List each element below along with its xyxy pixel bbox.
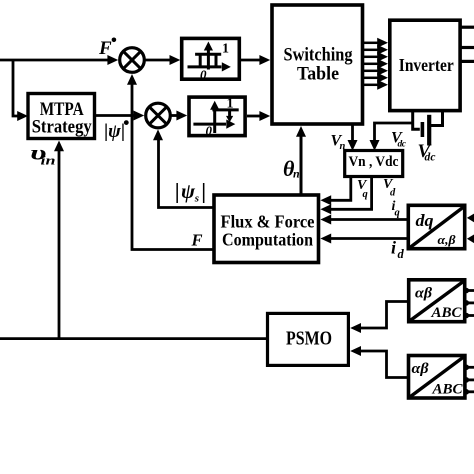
svg-text:s: s <box>194 193 199 205</box>
svg-text:F: F <box>191 231 203 250</box>
svg-text:|: | <box>175 179 180 204</box>
summing junction circle 1 <box>120 48 145 73</box>
wire psi_s feedback to circle2 <box>159 138 215 208</box>
svg-text:ABC: ABC <box>430 305 461 321</box>
dq right input stubs <box>467 214 474 223</box>
svg-text:0: 0 <box>200 67 207 82</box>
svg-text:dc: dc <box>425 152 436 164</box>
wires switching table to inverter (7 parallel arrows) <box>364 43 379 85</box>
svg-text:Switching: Switching <box>284 45 353 66</box>
wire v_in branch up to MTPA <box>58 149 61 339</box>
svg-text:q: q <box>395 208 400 219</box>
svg-text:αβ: αβ <box>415 286 432 302</box>
svg-text:Strategy: Strategy <box>32 117 92 138</box>
summing junction circle 2 <box>146 103 171 128</box>
wire abc1 to PSMO <box>359 302 409 329</box>
svg-text:PSMO: PSMO <box>286 328 332 350</box>
svg-text:i: i <box>391 238 396 258</box>
svg-text:F: F <box>98 38 112 59</box>
svg-text:1: 1 <box>222 42 229 57</box>
wire hysteresis2 to switching table <box>247 115 262 118</box>
svg-text:d: d <box>398 247 405 261</box>
svg-text:Computation: Computation <box>222 230 313 250</box>
wire abc2 to PSMO <box>359 351 409 378</box>
Inverter block <box>390 20 460 110</box>
svg-text:Flux & Force: Flux & Force <box>221 212 315 232</box>
wire id from dq block <box>329 237 407 240</box>
svg-text:in: in <box>41 153 56 168</box>
svg-text:|: | <box>201 179 206 204</box>
wire Vn from switching table <box>351 126 354 144</box>
wire PSMO output feedback rail <box>0 337 268 340</box>
svg-text:α,β: α,β <box>438 232 456 247</box>
hysteresis comparator F block <box>182 38 240 79</box>
Flux & Force Computation block <box>214 195 319 263</box>
svg-text:q: q <box>363 189 368 200</box>
Vn , Vdc block <box>345 151 403 177</box>
svg-text:0: 0 <box>206 123 213 138</box>
hysteresis comparator flux block <box>189 97 245 136</box>
MTPA Strategy block <box>28 94 95 139</box>
wire iq from dq block <box>329 218 407 221</box>
svg-text:Inverter: Inverter <box>399 55 454 75</box>
wire branch down to MTPA input <box>13 60 19 116</box>
wire top rail F* reference <box>0 59 110 62</box>
svg-text:ABC: ABC <box>431 382 462 398</box>
wire circle2 to hysteresis2 <box>172 114 179 117</box>
wire hysteresis1 to switching table <box>241 59 262 62</box>
wire Vd <box>329 177 372 209</box>
svg-text:d: d <box>390 188 396 199</box>
PSMO block <box>268 313 349 365</box>
wire F feedback to circle1 <box>132 82 214 250</box>
svg-text:dc: dc <box>398 140 407 150</box>
alpha-beta to ABC block 2 <box>409 356 465 399</box>
svg-text:1: 1 <box>227 97 234 112</box>
Switching Table block <box>272 5 363 124</box>
svg-text:|ψ|: |ψ| <box>104 121 125 142</box>
wire inverter dc-link right terminal <box>431 111 443 126</box>
svg-text:Vn , Vdc: Vn , Vdc <box>349 154 399 170</box>
svg-text:dq: dq <box>416 211 435 230</box>
wire Vq <box>329 177 351 200</box>
dq to alpha-beta transform block <box>408 205 464 248</box>
svg-text:αβ: αβ <box>412 361 429 377</box>
svg-text:Table: Table <box>297 64 339 85</box>
svg-text:n: n <box>293 167 300 181</box>
alpha-beta to ABC block 1 <box>409 280 465 322</box>
battery long plate <box>427 115 431 146</box>
wire Vdc tap to Vn,Vdc block <box>375 123 413 143</box>
wire inverter dc-link left terminal <box>413 111 420 130</box>
wire circle1 to hysteresis1 <box>146 59 172 62</box>
battery short plate <box>421 122 425 137</box>
inverter right output stubs <box>461 27 474 61</box>
svg-text:ψ: ψ <box>181 179 196 203</box>
wire MTPA to circle2 <box>95 114 136 117</box>
wire theta_n to switching table <box>300 135 303 196</box>
